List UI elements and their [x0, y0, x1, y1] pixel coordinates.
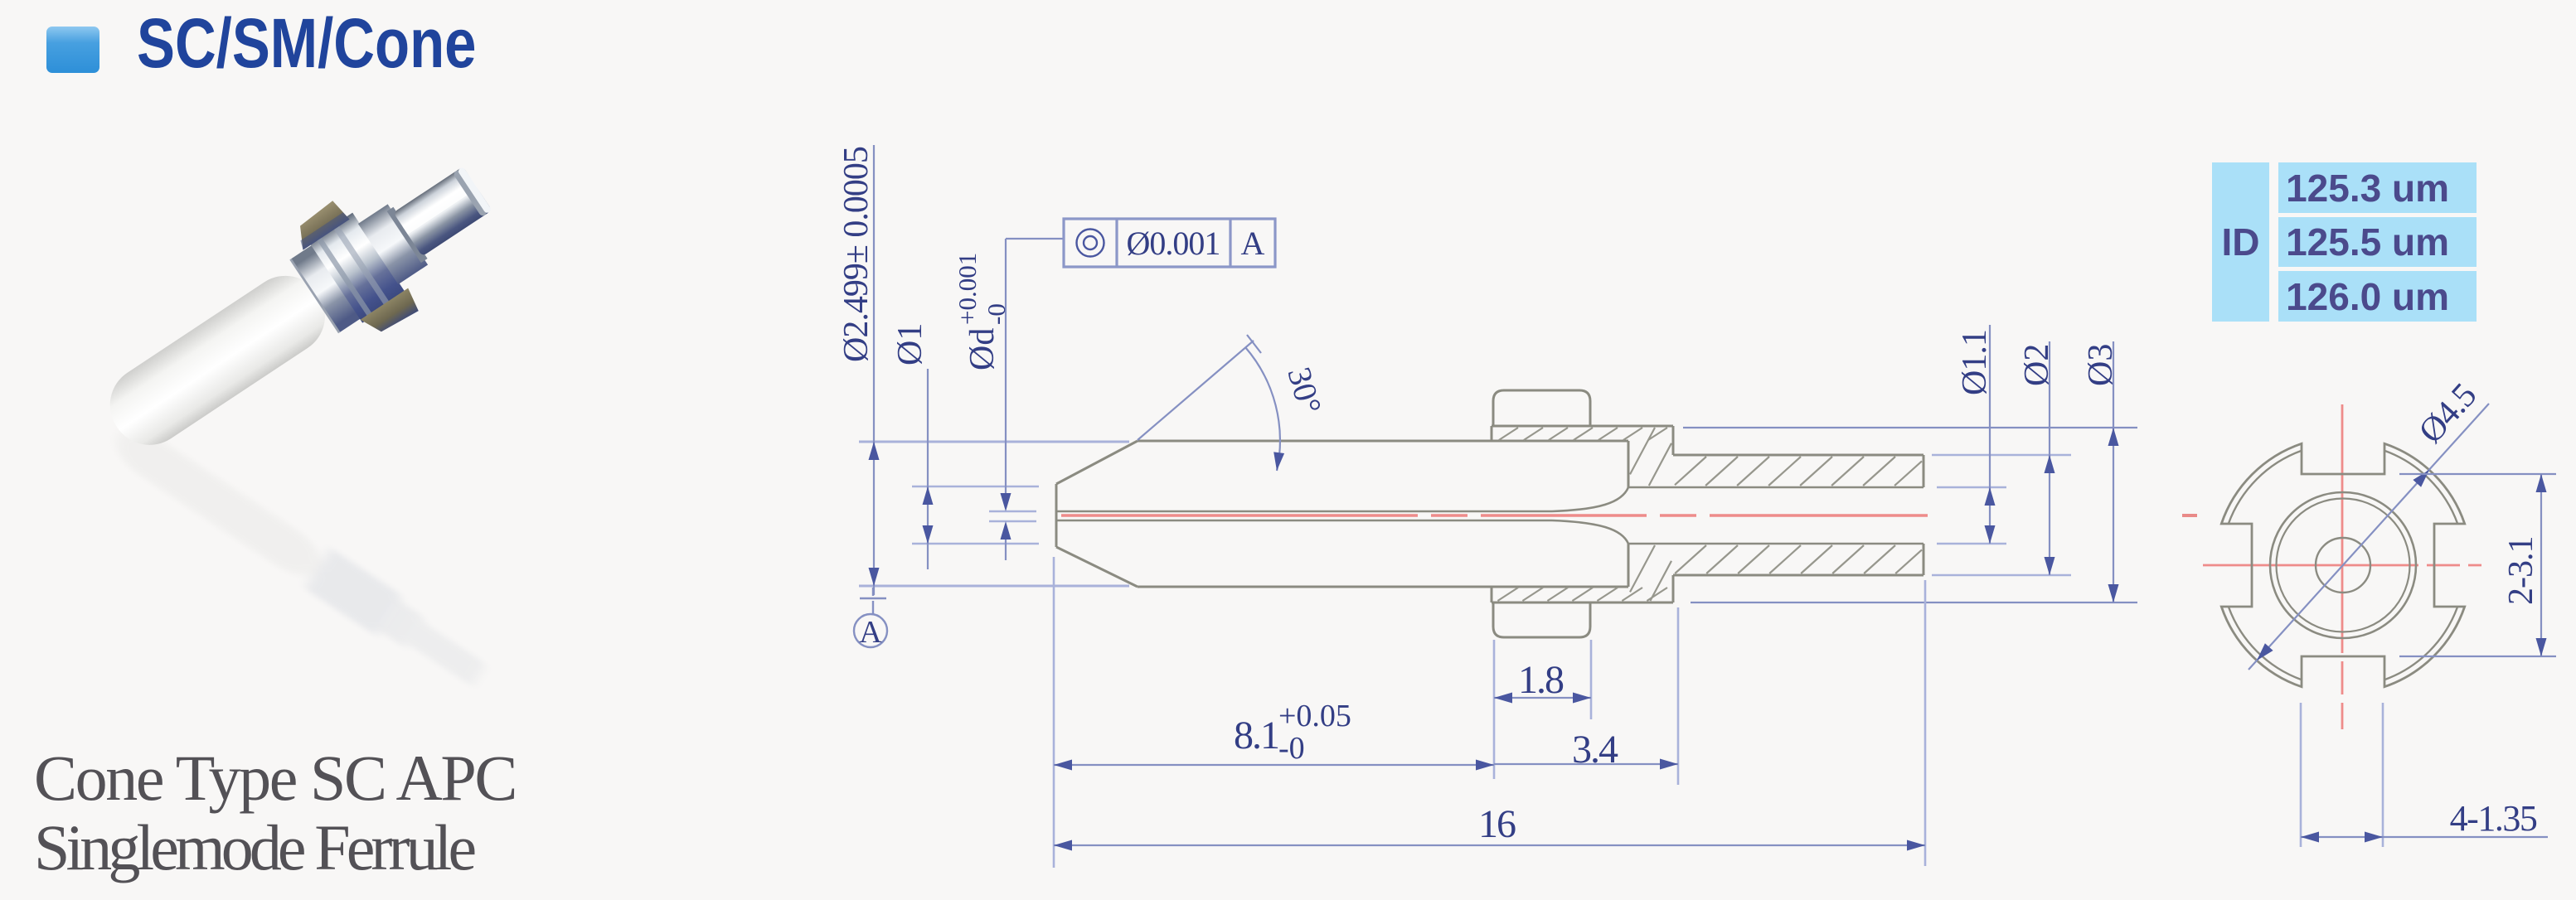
dimension line dia 1.1	[1989, 325, 1991, 544]
extension line at flange rear	[1590, 640, 1593, 719]
svg-text:+0.05: +0.05	[1278, 699, 1351, 733]
flange front ring	[290, 244, 361, 332]
hatch: solid block top	[1630, 428, 1671, 486]
header title SC/SM/Cone	[137, 3, 476, 84]
svg-text:A: A	[1241, 225, 1265, 262]
svg-text:+0.001: +0.001	[953, 253, 982, 325]
dimension line 1.8	[1494, 697, 1591, 699]
ferrule side view: 30 deg chamfer bottom	[1056, 547, 1138, 587]
ID header cell	[2212, 162, 2269, 322]
rear metal tube	[393, 167, 492, 257]
hatch: sleeve band top	[1493, 428, 1667, 440]
svg-text:1.8: 1.8	[1518, 658, 1564, 702]
dark ring at tube base	[387, 207, 428, 263]
ceramic body	[95, 261, 340, 460]
svg-text:4-1.35: 4-1.35	[2450, 798, 2537, 839]
datum A symbol	[860, 588, 886, 614]
extension line sleeve OD bottom long	[1691, 602, 2137, 603]
dimension line dia 3	[2113, 341, 2114, 602]
ID table	[2212, 162, 2477, 322]
extension line at tip	[1053, 557, 1055, 868]
svg-text:3.4: 3.4	[1572, 728, 1618, 772]
extension line at sleeve end	[1677, 607, 1680, 785]
product photo of SC cone ferrule	[79, 130, 517, 695]
extension lines 4-1.35	[2301, 703, 2383, 847]
extension line tube OD bottom	[1932, 574, 2071, 577]
header blue bullet square	[46, 27, 99, 73]
concentricity symbol	[1077, 230, 1104, 257]
dimension line dia 1	[927, 369, 929, 569]
chamfer extension line	[1138, 341, 1254, 440]
rear tube outer diameter	[1673, 455, 1924, 575]
svg-text:Ø1.1: Ø1.1	[1956, 330, 1994, 395]
value cell 125.5 um	[2278, 217, 2477, 267]
dimension line dia d with leader to tolerance frame	[1006, 239, 1064, 560]
end view flange inner wall arcs	[2229, 451, 2457, 680]
svg-text:16: 16	[1478, 802, 1516, 846]
extension lines dia d capillary	[989, 511, 1036, 521]
svg-text:8.1: 8.1	[1234, 714, 1278, 757]
ferrule side view: 30 deg chamfer top	[1056, 441, 1138, 484]
dimension line 8.1	[1054, 764, 1494, 766]
end view red crosshair	[2203, 564, 2481, 567]
extension line tube OD top	[1932, 454, 2071, 457]
svg-text:A: A	[859, 615, 882, 650]
dimension line dia 2	[2049, 341, 2050, 575]
dimension line 2-3.1	[2540, 474, 2542, 656]
feature control frame box	[1064, 219, 1275, 267]
ferrule side view: tip face	[1055, 484, 1058, 547]
extension line tube bore bottom	[1937, 543, 2006, 545]
flange wing bottom	[361, 288, 422, 341]
holder sleeve front face	[1491, 426, 1493, 602]
dimension line 3.4	[1494, 763, 1678, 765]
dimension line 16	[1054, 844, 1925, 846]
dia 4.5 leader line	[2249, 404, 2489, 670]
dimension line dia 2.499	[873, 145, 875, 595]
svg-text:30°: 30°	[1280, 363, 1329, 418]
end view flange outer profile with 4 slots	[2221, 443, 2464, 686]
ferrule body outer diameter lines	[1138, 441, 1628, 587]
holder bore walls	[1628, 487, 1924, 544]
flange wing top	[289, 199, 349, 250]
end view counterbore circle	[2316, 538, 2370, 593]
extension line ferrule OD bottom / datum line	[859, 585, 1129, 588]
hatch: sleeve band bottom	[1493, 588, 1667, 601]
extension line at tube end	[1924, 580, 1927, 866]
svg-text:-0: -0	[1278, 731, 1305, 766]
conical counterbore trumpet	[1552, 487, 1628, 544]
svg-text:Ø3: Ø3	[2082, 344, 2120, 386]
photo ferrule assembly	[79, 130, 517, 485]
step face sleeve to tube	[1672, 426, 1675, 602]
photo reflection	[105, 417, 492, 695]
caption Cone Type SC APC Singlemode Ferrule	[34, 743, 516, 883]
angle arc	[1245, 347, 1280, 471]
fiber capillary bore lines	[1056, 511, 1552, 520]
svg-text:Ø2.499± 0.0005: Ø2.499± 0.0005	[837, 147, 876, 362]
svg-text:Ød: Ød	[963, 328, 1002, 370]
ferrule rear end face	[1628, 441, 1630, 587]
flange boss bottom	[1493, 602, 1590, 637]
holder sleeve outer diameter	[1492, 426, 1673, 602]
tick at arc start	[1247, 335, 1261, 353]
svg-text:Ø4.5: Ø4.5	[2412, 377, 2484, 451]
extension line ferrule OD top	[859, 441, 1129, 443]
value cell 126.0 um	[2278, 271, 2477, 322]
extension line at flange front	[1493, 640, 1496, 779]
svg-text:Ø2: Ø2	[2018, 344, 2056, 386]
svg-text:Ø1: Ø1	[891, 323, 929, 365]
svg-text:-0: -0	[982, 303, 1011, 325]
extension lines 2-3.1	[2399, 474, 2556, 656]
extension lines dia 1 counterbore	[912, 486, 1039, 544]
step section	[358, 204, 428, 284]
hatch: solid block bottom	[1630, 545, 1671, 601]
svg-text:Ø0.001: Ø0.001	[1127, 225, 1220, 262]
dimension line 4-1.35	[2301, 836, 2548, 838]
extension line sleeve OD top long	[1683, 427, 2137, 428]
extension line tube bore top	[1937, 486, 2006, 489]
flange collar	[308, 213, 406, 323]
value cell 125.3 um	[2278, 162, 2477, 213]
rear tube end face	[1923, 455, 1925, 575]
hatch: tube wall top	[1675, 457, 1922, 486]
red center line of ferrule axis	[1061, 514, 1928, 516]
detached center line dash right	[2182, 514, 2197, 517]
hatch: tube wall bottom	[1675, 545, 1922, 573]
flange boss top	[1493, 390, 1590, 426]
svg-text:2-3.1: 2-3.1	[2502, 537, 2540, 606]
end view ferrule OD circle	[2270, 492, 2416, 638]
